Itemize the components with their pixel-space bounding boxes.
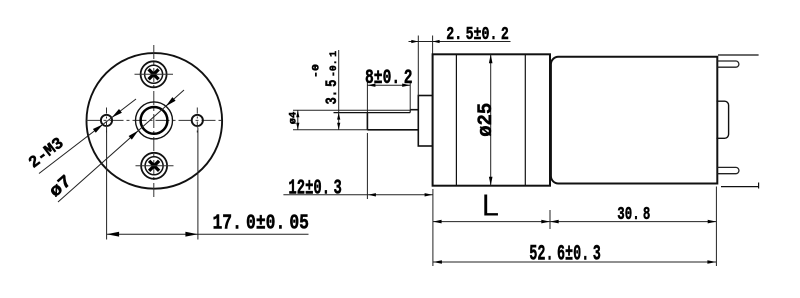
arrow 30.8 left	[550, 220, 559, 224]
gearbox body rectangle	[433, 54, 550, 185]
mounting hole right (M3)	[192, 115, 203, 126]
svg-text:-0. 1: -0. 1	[329, 51, 340, 77]
screw top	[141, 61, 167, 87]
Φ7 arrow NE	[166, 97, 176, 106]
terminal bottom	[717, 167, 739, 173]
arrow 8 left	[367, 84, 375, 87]
arrow L left	[433, 220, 442, 224]
gearbox face extension line	[432, 189, 434, 266]
screw bottom	[141, 153, 167, 179]
Φ4 bottom extension line	[293, 129, 367, 131]
arrow 12 right	[425, 193, 433, 196]
8 right extension line	[409, 81, 411, 110]
mounting hole right centerline	[196, 108, 198, 135]
extension line right hole	[197, 128, 199, 240]
terminal top	[717, 61, 739, 67]
Φ4 dimension line	[297, 110, 299, 130]
end bearing boss	[716, 101, 728, 138]
motor front outline circle	[87, 53, 223, 189]
arrow 8 right	[402, 84, 410, 87]
mounting hole left (M3)	[101, 115, 112, 126]
dimension line 17.0	[107, 233, 309, 235]
gearbox internal line 1	[455, 54, 457, 185]
label 3.5 lower tolerance -0.1	[329, 51, 340, 77]
arrow 3.5 down	[337, 123, 340, 130]
dimension line 12	[283, 194, 432, 196]
arrow 3.5 up	[337, 113, 340, 120]
Φ7 dimension leader line	[58, 90, 184, 202]
arrow 2.5 right	[433, 40, 440, 43]
dimension line 8	[367, 84, 410, 86]
svg-text:17. 0±0. 05: 17. 0±0. 05	[213, 211, 310, 235]
arrow Φ4 down	[296, 123, 299, 130]
bearing boss front rectangle	[418, 96, 432, 147]
shaft flat step	[409, 110, 411, 113]
screw bottom centerline	[136, 165, 174, 167]
label 52.6±0.3	[529, 242, 601, 267]
output shaft hole inner circle	[141, 107, 168, 134]
svg-text:-0: -0	[312, 64, 323, 78]
svg-text:30. 8: 30. 8	[617, 204, 650, 225]
screw top centerline	[135, 73, 174, 75]
vertical centerline	[153, 45, 155, 200]
label 17.0±0.05	[213, 211, 310, 235]
shaft flat top edge	[334, 112, 411, 114]
label 2-M3	[25, 133, 68, 172]
8 left extension line	[366, 81, 368, 113]
shaft bottom edge	[367, 129, 418, 131]
arrow Φ4 up	[296, 110, 299, 117]
arrow 12 left	[368, 193, 376, 196]
extension line left hole	[106, 128, 108, 240]
arrow L right	[541, 220, 550, 224]
shaft full-dia top edge	[410, 109, 418, 111]
2.5 right extension line	[432, 36, 434, 55]
Φ25 dimension line	[490, 54, 492, 185]
dimension line 2.5	[409, 41, 511, 43]
label 30.8	[617, 204, 650, 225]
output shaft hole outer circle (Φ7)	[136, 102, 173, 139]
motor can body	[551, 57, 717, 184]
label Φ7	[46, 172, 77, 203]
3.5 dimension line	[338, 50, 340, 130]
label 12±0.3	[288, 178, 342, 201]
2.5 left extension line	[417, 36, 419, 96]
top edge stub line	[718, 54, 759, 56]
svg-text:ø25: ø25	[475, 103, 498, 137]
svg-text:8±0. 2: 8±0. 2	[365, 67, 413, 90]
horizontal centerline	[87, 119, 223, 121]
label 8±0.2	[365, 67, 413, 90]
dimension line 52.6	[433, 261, 717, 263]
arrow 30.8 right	[708, 220, 717, 224]
arrow Φ25 up	[489, 54, 493, 63]
gearbox/can junction line	[549, 54, 551, 185]
shaft tip edge	[366, 113, 368, 130]
svg-text:12±0. 3: 12±0. 3	[288, 178, 342, 201]
arrow 2.5 left	[411, 40, 418, 43]
label 2.5±0.2	[446, 24, 509, 45]
label Φ25	[475, 103, 498, 137]
arrow 52.6 left	[433, 260, 442, 264]
junction extension line	[549, 210, 551, 229]
arrow 17.0 left	[107, 232, 120, 237]
2-M3 arrow NE	[112, 109, 122, 118]
gearbox internal line 2	[524, 54, 526, 185]
arrow 17.0 right	[185, 232, 198, 237]
2-M3 dimension leader line	[39, 99, 136, 174]
label 3.5	[323, 80, 341, 105]
arrow Φ25 down	[489, 177, 493, 186]
label Φ4	[288, 112, 299, 125]
svg-text:3. 5: 3. 5	[323, 80, 341, 105]
label L	[482, 188, 499, 223]
label 3.5 upper tolerance -0	[312, 64, 323, 78]
Φ4 top extension line	[293, 109, 410, 111]
can end extension line	[715, 187, 717, 267]
12 shaft tip extension line	[366, 133, 368, 199]
2-M3 arrow SW	[93, 124, 103, 133]
mounting hole left centerline	[106, 108, 108, 135]
svg-text:ø4: ø4	[288, 112, 299, 125]
Φ7 arrow SW	[129, 131, 139, 140]
svg-text:L: L	[482, 188, 499, 223]
bottom edge stub line	[721, 186, 759, 188]
stub end tick	[758, 183, 760, 189]
3.5 extension line	[333, 112, 335, 114]
dimension line L and 30.8	[433, 221, 717, 223]
arrow 52.6 right	[707, 260, 716, 264]
